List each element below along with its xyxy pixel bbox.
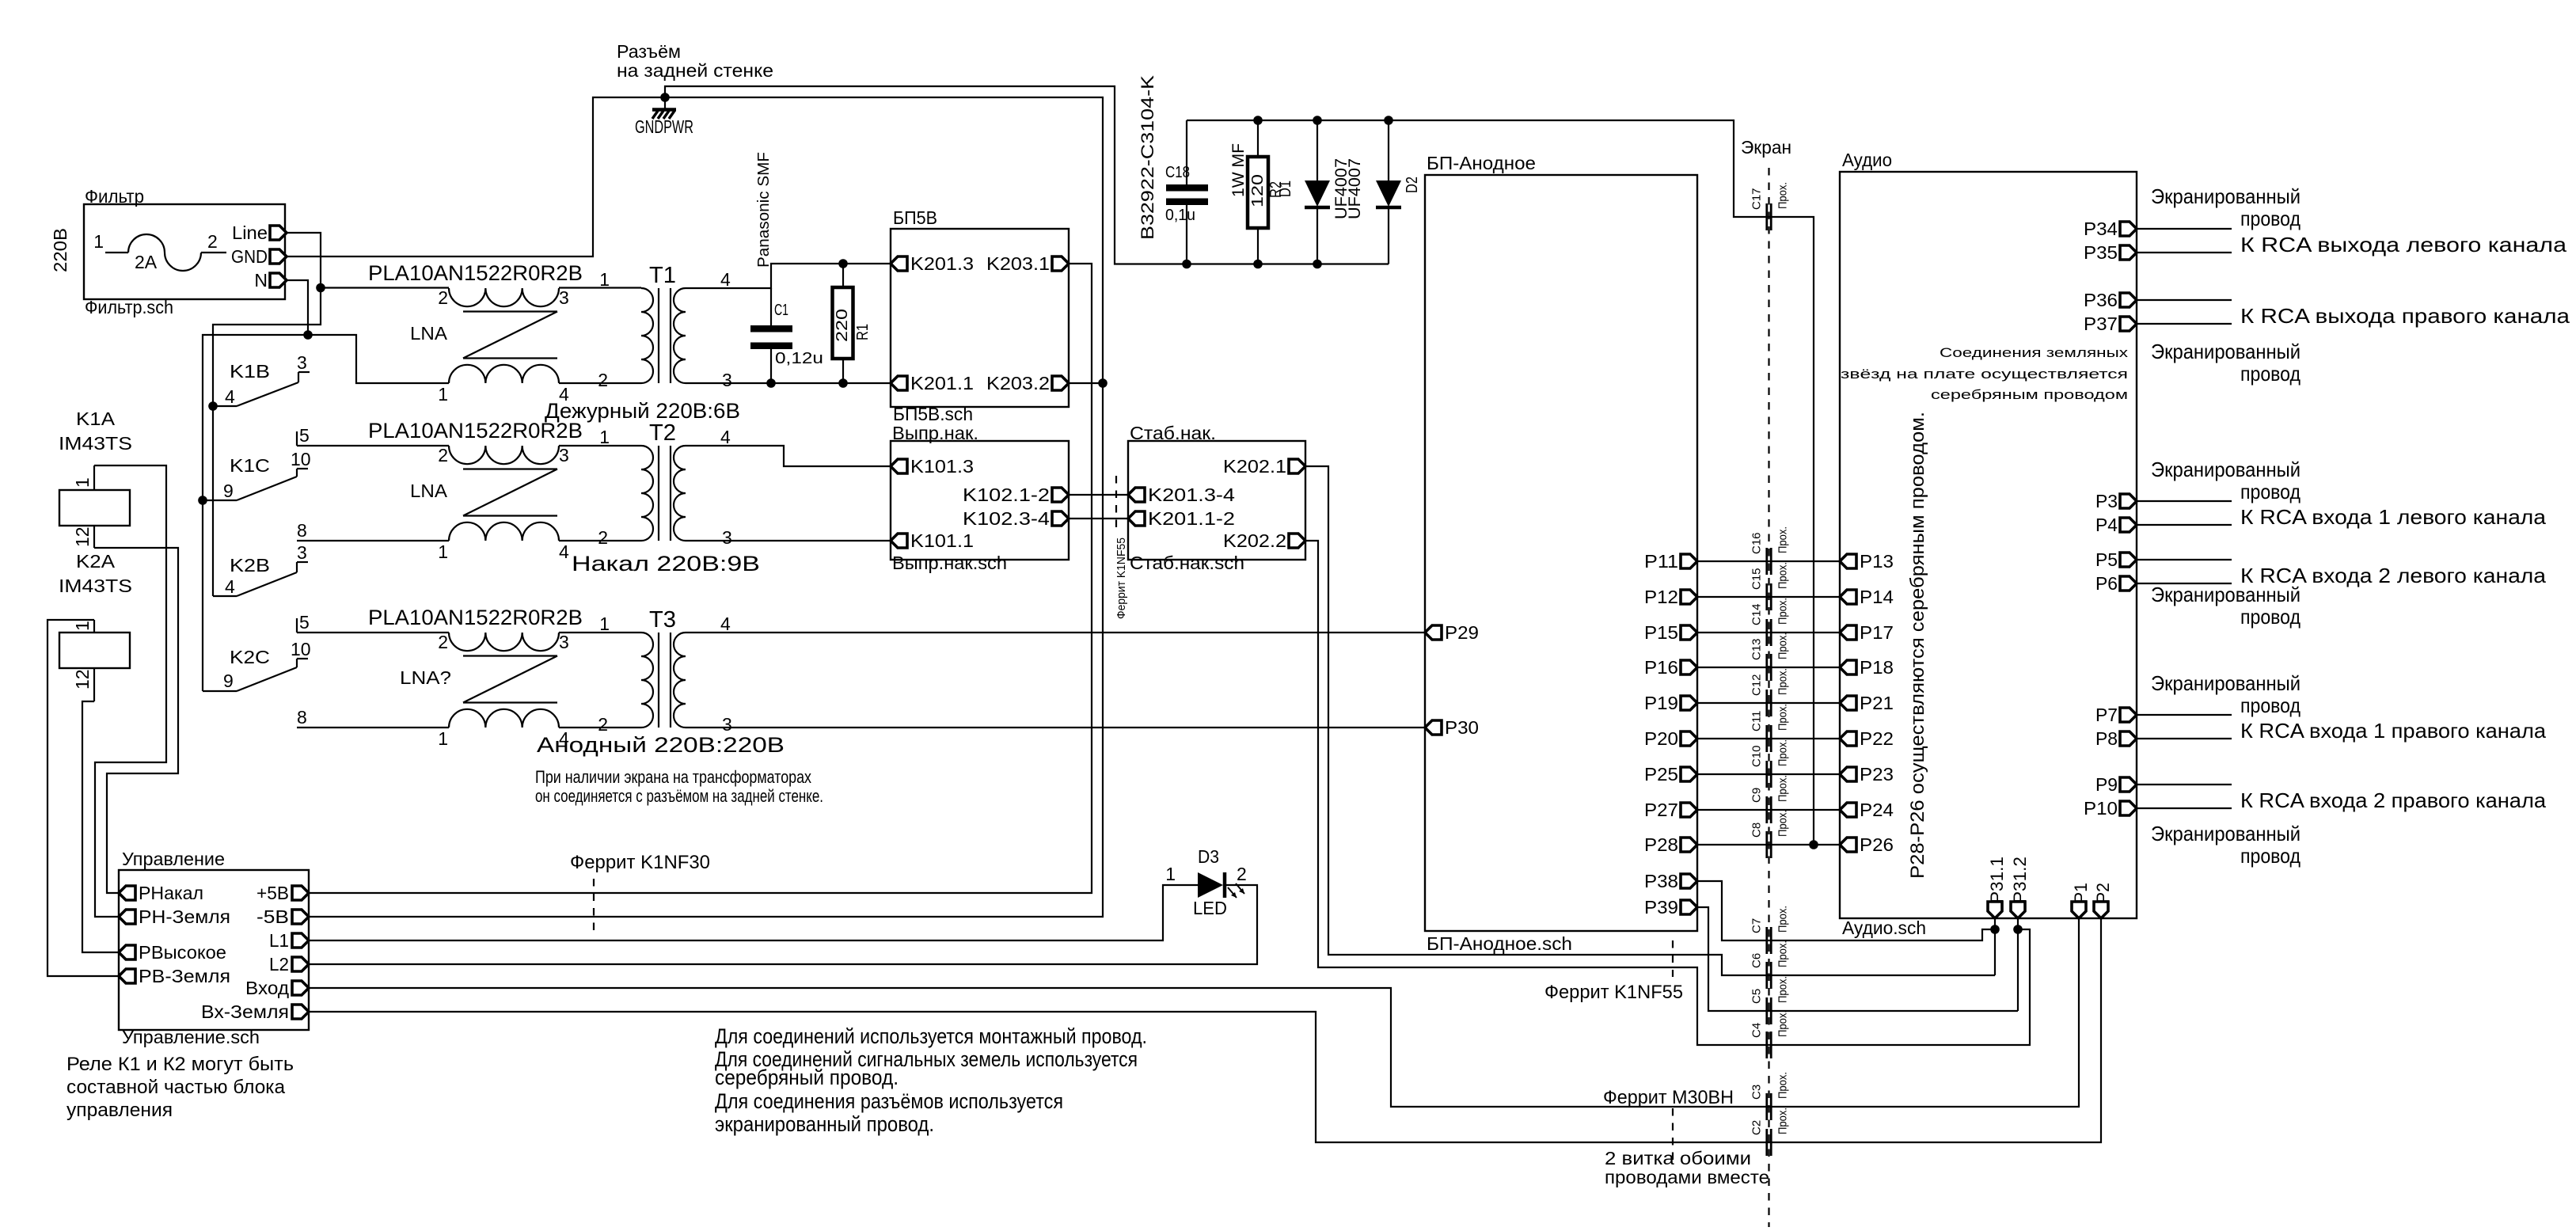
svg-text:K1C: K1C xyxy=(230,455,270,476)
wire P36 shielded stub xyxy=(2137,299,2232,301)
junction D1 bottom xyxy=(1313,260,1322,269)
pin K102.1-2 xyxy=(963,484,1069,505)
svg-text:серебряным проводом: серебряным проводом xyxy=(1931,387,2128,402)
svg-text:провод: провод xyxy=(2240,480,2301,503)
svg-text:Вход: Вход xyxy=(245,978,290,998)
svg-text:Вх-Земля: Вх-Земля xyxy=(201,1001,289,1022)
resistor R2 120 1W MF xyxy=(1229,120,1285,264)
svg-text:120: 120 xyxy=(1249,174,1267,207)
note К RCA входа 2 левого канала xyxy=(2240,564,2547,587)
svg-text:LED: LED xyxy=(1193,898,1227,918)
svg-text:C14: C14 xyxy=(1750,603,1764,625)
svg-text:P21: P21 xyxy=(1860,693,1894,713)
wire K1A pin12 to РНакал xyxy=(94,548,178,893)
svg-text:D2: D2 xyxy=(1404,177,1421,193)
svg-text:T1: T1 xyxy=(649,263,676,288)
pin P14 xyxy=(1840,587,1894,607)
svg-text:P6: P6 xyxy=(2095,573,2118,594)
pin P29 xyxy=(1425,622,1479,643)
svg-text:P23: P23 xyxy=(1860,764,1894,785)
svg-text:Реле К1 и К2 могут быть: Реле К1 и К2 могут быть xyxy=(66,1054,294,1075)
svg-text:К RCA выхода правого канала: К RCA выхода правого канала xyxy=(2240,304,2570,328)
svg-text:P14: P14 xyxy=(1860,587,1894,607)
svg-text:PLA10AN1522R0R2B: PLA10AN1522R0R2B xyxy=(368,419,583,443)
svg-text:4: 4 xyxy=(720,614,731,634)
svg-text:К RCA входа 1 левого канала: К RCA входа 1 левого канала xyxy=(2240,505,2547,529)
sheet block Аудио xyxy=(1840,150,2137,938)
LED D3 xyxy=(1165,846,1247,918)
svg-text:Экранированный: Экранированный xyxy=(2151,458,2301,481)
wire T2 pin3 to K101.1 xyxy=(686,540,891,541)
svg-text:P29: P29 xyxy=(1445,622,1479,643)
resistor R1 220 xyxy=(833,264,872,383)
svg-text:C10: C10 xyxy=(1750,745,1764,767)
wire T3 top choke to primary xyxy=(559,632,641,633)
junction GNDPWR xyxy=(660,93,670,102)
feedthrough capacitor C17 xyxy=(1750,182,1790,230)
svg-text:3: 3 xyxy=(297,352,307,373)
svg-text:4: 4 xyxy=(720,427,731,447)
svg-text:Феррит K1NF55: Феррит K1NF55 xyxy=(1544,982,1683,1003)
svg-text:P15: P15 xyxy=(1644,622,1678,643)
pin P8 xyxy=(2095,728,2137,749)
note Экранированный провод (P3) xyxy=(2151,458,2301,503)
diode D1 UF4007 xyxy=(1277,120,1351,264)
svg-text:2: 2 xyxy=(598,714,608,735)
pin P35 xyxy=(2084,242,2137,263)
svg-text:K201.1: K201.1 xyxy=(910,373,974,393)
svg-text:UF4007: UF4007 xyxy=(1346,158,1364,219)
wire K102.3-4 to K201.1-2 xyxy=(1069,518,1128,519)
feedthrough capacitor C5 xyxy=(1750,976,1790,1024)
pin P16 xyxy=(1644,657,1697,678)
wire P25 to P23 xyxy=(1697,773,1840,775)
svg-text:РНакал: РНакал xyxy=(139,883,203,903)
svg-text:Прох.: Прох. xyxy=(1776,976,1790,1003)
svg-text:L1: L1 xyxy=(269,930,289,951)
wire P5 shielded stub xyxy=(2137,559,2232,560)
relay coil K2A IM43TS xyxy=(59,551,132,701)
feedthrough capacitor C10 xyxy=(1750,739,1790,788)
svg-text:3: 3 xyxy=(559,445,569,465)
svg-text:2: 2 xyxy=(598,370,608,390)
wire P19 to P21 xyxy=(1697,702,1840,704)
wire T3 pin3 to P30 xyxy=(686,727,1425,728)
ferrite K1NF55 #2 dashed line xyxy=(1672,940,1674,977)
svg-text:P28-P26 осуществляются серебря: P28-P26 осуществляются серебряным провод… xyxy=(1907,412,1928,879)
pin K202.2 xyxy=(1223,530,1305,551)
pin -5В xyxy=(256,906,309,927)
svg-text:P34: P34 xyxy=(2084,218,2118,239)
svg-text:3: 3 xyxy=(297,542,307,563)
svg-text:Прох.: Прох. xyxy=(1776,906,1790,933)
svg-text:Прох.: Прох. xyxy=(1776,182,1790,209)
sheet block БП5В xyxy=(891,207,1069,424)
svg-text:12: 12 xyxy=(72,526,93,547)
junction D2 top xyxy=(1384,116,1393,125)
svg-text:К RCA входа 2 правого канала: К RCA входа 2 правого канала xyxy=(2240,788,2547,812)
wire K2B pin8 to T2 choke xyxy=(297,540,449,541)
pin P11 xyxy=(1644,551,1697,572)
svg-text:P30: P30 xyxy=(1445,717,1479,738)
svg-text:C6: C6 xyxy=(1750,953,1764,968)
junction R2 bottom xyxy=(1253,260,1263,269)
ferrite K1NF55 dashed line xyxy=(1115,476,1117,533)
svg-text:1: 1 xyxy=(1165,864,1176,884)
note Экранированный провод (P34) xyxy=(2151,184,2301,230)
svg-text:Прох.: Прох. xyxy=(1776,668,1790,695)
relay contact K1B xyxy=(213,352,310,407)
wire P34 shielded stub xyxy=(2137,228,2232,230)
wire K1C pin5 to T2 choke xyxy=(297,445,449,446)
svg-text:1: 1 xyxy=(72,621,93,631)
svg-text:12: 12 xyxy=(72,669,93,690)
svg-text:P10: P10 xyxy=(2084,798,2118,819)
svg-text:220: 220 xyxy=(834,309,851,342)
pin P20 xyxy=(1644,728,1697,749)
svg-text:K101.1: K101.1 xyxy=(910,530,974,551)
wire GND net: filter to GNDPWR to -5V riser xyxy=(287,97,1103,917)
junction N/T1 xyxy=(303,330,313,340)
pin K201.1 xyxy=(891,373,974,393)
svg-text:провод: провод xyxy=(2240,605,2301,629)
wire P31.1 pin stub down to C6 row xyxy=(1994,918,1996,975)
svg-text:2 витка обоими: 2 витка обоими xyxy=(1605,1148,1751,1168)
pin P37 xyxy=(2084,313,2137,334)
svg-text:экранированный провод.: экранированный провод. xyxy=(715,1112,934,1136)
wire K1A pin1 to РН-Земля xyxy=(94,465,166,917)
svg-text:3: 3 xyxy=(722,370,732,390)
svg-text:K102.1-2: K102.1-2 xyxy=(963,484,1050,505)
svg-text:P12: P12 xyxy=(1644,587,1678,607)
svg-text:D1: D1 xyxy=(1277,180,1294,197)
svg-text:Феррит K1NF30: Феррит K1NF30 xyxy=(570,852,710,873)
svg-text:R1: R1 xyxy=(854,324,872,340)
relay contact K1C xyxy=(203,425,311,501)
svg-text:1: 1 xyxy=(599,269,610,290)
wire K2C pin8 to T3 choke xyxy=(297,727,449,728)
pin P3 xyxy=(2095,491,2137,511)
wire K202.1 to C6 row xyxy=(1305,466,1995,975)
pin P1 xyxy=(2071,883,2091,918)
svg-text:Прох.: Прох. xyxy=(1776,598,1790,625)
svg-text:БП5В: БП5В xyxy=(893,207,937,228)
svg-text:Прох.: Прох. xyxy=(1776,1010,1790,1037)
svg-text:2: 2 xyxy=(1237,864,1247,884)
svg-text:провод: провод xyxy=(2240,207,2301,230)
transformer T1 with line filter LNA xyxy=(368,261,732,405)
feedthrough capacitor C13 xyxy=(1750,633,1790,681)
pin K101.3 xyxy=(891,456,974,477)
svg-text:Аудио.sch: Аудио.sch xyxy=(1842,918,1926,938)
svg-text:он соединяется с разъёмом на з: он соединяется с разъёмом на задней стен… xyxy=(535,786,823,806)
svg-text:3: 3 xyxy=(559,287,569,308)
label Накал 220В:9В xyxy=(572,552,760,576)
pin P4 xyxy=(2095,515,2137,535)
svg-text:Выпр.нак.sch: Выпр.нак.sch xyxy=(892,553,1007,573)
pin P9 xyxy=(2095,774,2137,795)
svg-text:Управление.sch: Управление.sch xyxy=(122,1027,260,1047)
svg-text:Прох.: Прох. xyxy=(1776,1108,1790,1134)
svg-text:P8: P8 xyxy=(2095,728,2118,749)
svg-text:Прох.: Прох. xyxy=(1776,704,1790,731)
svg-text:LNA: LNA xyxy=(410,481,448,501)
svg-text:Panasonic SMF: Panasonic SMF xyxy=(755,152,773,268)
svg-text:K2A: K2A xyxy=(76,551,116,572)
svg-text:PLA10AN1522R0R2B: PLA10AN1522R0R2B xyxy=(368,606,583,629)
note P28-P26 осуществляются серебряным проводом (rotated) xyxy=(1907,412,1928,879)
wire K2A pin12 to РВысокое xyxy=(82,701,119,952)
wire T2 pin4 to K101.3 xyxy=(686,446,891,466)
wire P12 to P14 xyxy=(1697,596,1840,598)
svg-text:P18: P18 xyxy=(1860,657,1894,678)
svg-text:Аудио: Аудио xyxy=(1842,150,1892,170)
svg-text:K102.3-4: K102.3-4 xyxy=(963,508,1050,529)
svg-text:LNA: LNA xyxy=(410,323,448,344)
svg-text:2: 2 xyxy=(207,231,218,252)
pin L2 xyxy=(269,954,309,975)
label Дежурный 220В:6В xyxy=(545,399,740,423)
pin РНакал xyxy=(119,883,203,903)
junction R1 bottom xyxy=(838,378,848,388)
pin L1 xyxy=(269,930,309,951)
capacitor C18 0,1u B32922-C3104-K xyxy=(1165,120,1208,264)
feedthrough capacitor C4 xyxy=(1750,1010,1790,1058)
wire P11 to P13 xyxy=(1697,560,1840,562)
filter pin GND xyxy=(231,246,287,267)
svg-text:10: 10 xyxy=(291,449,311,469)
pin P17 xyxy=(1840,622,1894,643)
wire P9 shielded stub xyxy=(2137,784,2232,785)
svg-text:Стаб.нак.: Стаб.нак. xyxy=(1130,423,1216,443)
svg-text:K202.1: K202.1 xyxy=(1223,456,1286,477)
svg-text:+5В: +5В xyxy=(256,883,289,903)
pin P22 xyxy=(1840,728,1894,749)
feedthrough capacitor C14 xyxy=(1750,598,1790,646)
svg-text:1: 1 xyxy=(438,541,448,562)
label Анодный 220В:220В xyxy=(537,733,785,757)
wire Line pin to phase rail xyxy=(213,233,321,596)
label Феррит K1NF55 #2 xyxy=(1544,982,1683,1003)
junction C18 bottom xyxy=(1182,260,1191,269)
pin P7 xyxy=(2095,705,2137,725)
svg-text:К RCA выхода левого канала: К RCA выхода левого канала xyxy=(2240,233,2567,256)
svg-text:C17: C17 xyxy=(1750,188,1764,210)
svg-text:T2: T2 xyxy=(649,420,676,446)
pin K202.1 xyxy=(1223,456,1305,477)
svg-text:Экранированный: Экранированный xyxy=(2151,822,2301,845)
svg-text:Анодный 220В:220В: Анодный 220В:220В xyxy=(537,733,785,757)
wire LED cathode to L2 xyxy=(309,885,1257,964)
label Panasonic SMF (C1 footprint) xyxy=(755,152,773,268)
wire P28 to P26 xyxy=(1697,844,1840,845)
transformer T2 with line filter LNA xyxy=(368,419,732,562)
svg-text:K201.3-4: K201.3-4 xyxy=(1148,484,1235,505)
svg-text:P5: P5 xyxy=(2095,549,2118,570)
svg-text:N: N xyxy=(254,270,268,291)
svg-text:Накал 220В:9В: Накал 220В:9В xyxy=(572,552,760,576)
junction screen to P28 row xyxy=(1809,840,1818,849)
note Экранированный провод (P6) xyxy=(2151,583,2301,629)
svg-text:Line: Line xyxy=(232,222,268,243)
svg-text:C8: C8 xyxy=(1750,823,1764,838)
svg-text:P25: P25 xyxy=(1644,764,1678,785)
wire K102.1-2 to K201.3-4 xyxy=(1069,494,1128,496)
svg-text:1: 1 xyxy=(599,614,610,634)
pin P34 xyxy=(2084,218,2137,239)
pin K201.3 xyxy=(891,253,974,274)
svg-text:D3: D3 xyxy=(1198,846,1219,867)
svg-text:P17: P17 xyxy=(1860,622,1894,643)
svg-text:Для соединений используется мо: Для соединений используется монтажный пр… xyxy=(715,1024,1147,1048)
svg-text:IM43TS: IM43TS xyxy=(59,576,132,596)
label Экран xyxy=(1741,137,1791,158)
capacitor C1 0,12u xyxy=(750,288,823,383)
svg-text:P39: P39 xyxy=(1644,897,1678,918)
svg-text:PLA10AN1522R0R2B: PLA10AN1522R0R2B xyxy=(368,261,583,285)
feedthrough capacitor C16 xyxy=(1750,526,1790,575)
note Соединения земляных звёзд xyxy=(1841,345,2129,402)
svg-text:P13: P13 xyxy=(1860,551,1894,572)
svg-text:звёзд на плате осуществляется: звёзд на плате осуществляется xyxy=(1841,367,2128,382)
svg-text:P27: P27 xyxy=(1644,800,1678,820)
svg-text:Фильтр: Фильтр xyxy=(85,186,144,207)
svg-text:C16: C16 xyxy=(1750,532,1764,554)
pin P6 xyxy=(2095,573,2137,594)
svg-text:проводами вместе: проводами вместе xyxy=(1605,1167,1769,1187)
label Разъём на задней стенке xyxy=(617,41,773,81)
screen dashed line xyxy=(1768,168,1769,1227)
pin P12 xyxy=(1644,587,1697,607)
pin K203.1 xyxy=(986,253,1069,274)
fuse F1 2A inside filter xyxy=(93,231,226,272)
svg-text:P9: P9 xyxy=(2095,774,2118,795)
pin P27 xyxy=(1644,800,1697,820)
svg-text:При наличии экрана на трансфор: При наличии экрана на трансформаторах xyxy=(535,767,811,787)
svg-text:Экранированный: Экранированный xyxy=(2151,340,2301,363)
svg-text:БП-Анодное: БП-Анодное xyxy=(1427,153,1536,173)
svg-text:Соединения земляных: Соединения земляных xyxy=(1940,345,2129,360)
wire K203.1 to +5V riser xyxy=(309,264,1092,893)
svg-text:-5В: -5В xyxy=(256,906,289,927)
feedthrough capacitor C7 xyxy=(1750,906,1790,954)
svg-text:2: 2 xyxy=(438,632,448,652)
wire P4 shielded stub xyxy=(2137,524,2232,526)
svg-text:управления: управления xyxy=(66,1100,173,1121)
svg-text:P22: P22 xyxy=(1860,728,1894,749)
svg-text:K1A: K1A xyxy=(76,408,116,429)
svg-text:Феррит М30ВН: Феррит М30ВН xyxy=(1603,1087,1734,1108)
svg-text:C5: C5 xyxy=(1750,989,1764,1004)
svg-text:C7: C7 xyxy=(1750,918,1764,933)
svg-text:K203.1: K203.1 xyxy=(986,253,1050,274)
wire K2A pin1 to РВ-Земля xyxy=(47,620,119,976)
svg-text:T3: T3 xyxy=(649,607,676,633)
svg-text:P1: P1 xyxy=(2071,883,2091,903)
svg-text:P3: P3 xyxy=(2095,491,2118,511)
diode D2 UF4007 xyxy=(1346,120,1421,264)
svg-text:РН-Земля: РН-Земля xyxy=(139,906,230,927)
svg-text:2A: 2A xyxy=(135,252,158,272)
pin K102.3-4 xyxy=(963,508,1069,529)
svg-text:1: 1 xyxy=(93,231,104,252)
pin P13 xyxy=(1840,551,1894,572)
svg-text:1: 1 xyxy=(438,384,448,405)
svg-text:4: 4 xyxy=(225,386,235,407)
wire T3 bottom choke to primary xyxy=(559,727,641,728)
transformer T3 with line filter LNA? xyxy=(368,606,732,749)
svg-text:2: 2 xyxy=(438,445,448,465)
note Экранированный провод (P37) xyxy=(2151,340,2301,386)
feedthrough capacitor C3 xyxy=(1750,1072,1790,1120)
svg-text:РВ-Земля: РВ-Земля xyxy=(139,966,230,986)
feedthrough capacitor C11 xyxy=(1750,704,1790,752)
svg-text:C15: C15 xyxy=(1750,568,1764,590)
ground symbol GNDPWR xyxy=(635,97,693,137)
svg-text:Фильтр.sch: Фильтр.sch xyxy=(85,297,173,317)
svg-text:K201.3: K201.3 xyxy=(910,253,974,274)
svg-text:K101.3: K101.3 xyxy=(910,456,974,477)
svg-text:провод: провод xyxy=(2240,844,2301,868)
note При наличии экрана xyxy=(535,767,823,806)
sheet block Стаб.нак. xyxy=(1128,423,1305,573)
svg-text:Экранированный: Экранированный xyxy=(2151,184,2301,208)
wire T2 top choke to primary xyxy=(559,445,641,446)
svg-text:5: 5 xyxy=(299,612,310,633)
svg-text:4: 4 xyxy=(225,576,235,597)
pin K203.2 xyxy=(986,373,1069,393)
svg-text:1: 1 xyxy=(599,427,610,447)
pin P2 xyxy=(2093,883,2113,918)
svg-text:9: 9 xyxy=(223,481,234,501)
svg-text:P26: P26 xyxy=(1860,834,1894,855)
pin P31.1 xyxy=(1987,857,2007,918)
pin P30 xyxy=(1425,717,1479,738)
pin K201.1-2 xyxy=(1128,508,1235,529)
svg-text:K202.2: K202.2 xyxy=(1223,530,1286,551)
svg-text:C3: C3 xyxy=(1750,1085,1764,1100)
svg-text:P28: P28 xyxy=(1644,834,1678,855)
svg-text:Разъём: Разъём xyxy=(617,41,681,62)
note Экранированный провод (P10) xyxy=(2151,822,2301,868)
svg-text:P37: P37 xyxy=(2084,313,2118,334)
filter pin N xyxy=(254,270,287,291)
svg-text:C18: C18 xyxy=(1165,164,1190,181)
wire P38 to C7 row to P31.1 xyxy=(1697,881,1995,940)
svg-text:8: 8 xyxy=(297,707,307,728)
svg-text:IM43TS: IM43TS xyxy=(59,433,132,454)
svg-text:C9: C9 xyxy=(1750,788,1764,803)
svg-text:220В: 220В xyxy=(50,228,70,272)
sheet block БП-Анодное xyxy=(1425,153,1697,954)
junction R2 top xyxy=(1253,116,1263,125)
junction K203.2 xyxy=(1098,378,1108,388)
note Экранированный провод (P7) xyxy=(2151,671,2301,717)
svg-text:4: 4 xyxy=(720,269,731,290)
junction K1C pin9 xyxy=(198,496,207,505)
wire N to T1 bottom winding xyxy=(308,335,449,383)
feedthrough capacitor C6 xyxy=(1750,940,1790,989)
relay coil K1A IM43TS xyxy=(59,408,132,548)
svg-text:GNDPWR: GNDPWR xyxy=(635,116,693,137)
pin P28 xyxy=(1644,834,1697,855)
pin P36 xyxy=(2084,290,2137,310)
wire T2 bottom choke to primary xyxy=(559,540,641,541)
pin P5 xyxy=(2095,549,2137,570)
svg-text:P16: P16 xyxy=(1644,657,1678,678)
note К RCA входа 1 левого канала xyxy=(2240,505,2547,529)
wire T1 top winding row xyxy=(321,287,641,288)
